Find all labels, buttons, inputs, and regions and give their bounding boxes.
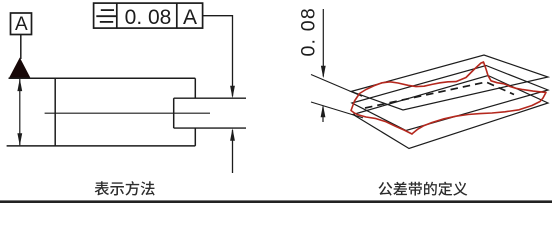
slot inner wall — [173, 98, 175, 128]
feature control frame box — [94, 3, 203, 28]
symmetry symbol — [101, 9, 114, 11]
svg-text:0. 08: 0. 08 — [125, 6, 172, 29]
FCF leader: horizontal then down — [203, 16, 233, 97]
datum median plane (dashed) — [365, 82, 514, 108]
caption 公差带的定义 — [378, 182, 392, 196]
slot top edge + extension line — [174, 97, 246, 99]
upper extension line — [311, 75, 362, 97]
lower dimension line — [322, 107, 324, 123]
upper tolerance plane — [351, 55, 548, 110]
datum triangle (filled) — [9, 58, 31, 79]
part outline: right edge above slot — [194, 78, 196, 98]
part outline: left edge — [54, 78, 56, 146]
lower extension line — [311, 102, 363, 118]
svg-text:A: A — [15, 14, 28, 35]
middle plane — [352, 66, 548, 131]
datum leader stem — [20, 35, 22, 59]
part outline: top edge — [9, 77, 196, 79]
svg-text:0. 08: 0. 08 — [298, 7, 320, 56]
part outline: right edge below slot — [194, 128, 196, 146]
bottom rule — [0, 200, 552, 203]
svg-text:A: A — [183, 6, 197, 29]
width dimension line (datum feature) — [19, 79, 21, 145]
slot width dimension arrow from below — [232, 130, 234, 173]
slot center line — [45, 112, 210, 114]
upper dimension line — [322, 9, 324, 77]
actual median surface (red wavy loop) — [351, 62, 546, 134]
part outline: bottom edge — [7, 145, 196, 147]
slot bottom edge + extension line — [174, 127, 246, 129]
lower tolerance plane — [353, 76, 548, 149]
caption 表示方法 — [95, 181, 109, 195]
datum label frame A — [11, 13, 32, 35]
